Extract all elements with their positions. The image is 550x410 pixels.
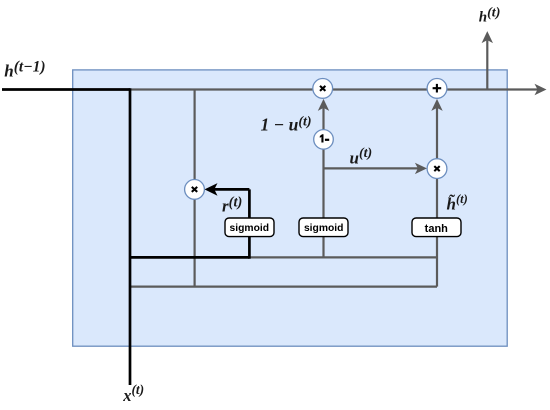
svg-text:x(t): x(t): [122, 382, 144, 405]
svg-text:h(t): h(t): [479, 6, 501, 26]
svg-text:h(t−1): h(t−1): [4, 58, 45, 80]
svg-text:tanh: tanh: [425, 223, 449, 235]
svg-text:sigmoid: sigmoid: [230, 223, 269, 234]
svg-text:sigmoid: sigmoid: [304, 223, 343, 234]
